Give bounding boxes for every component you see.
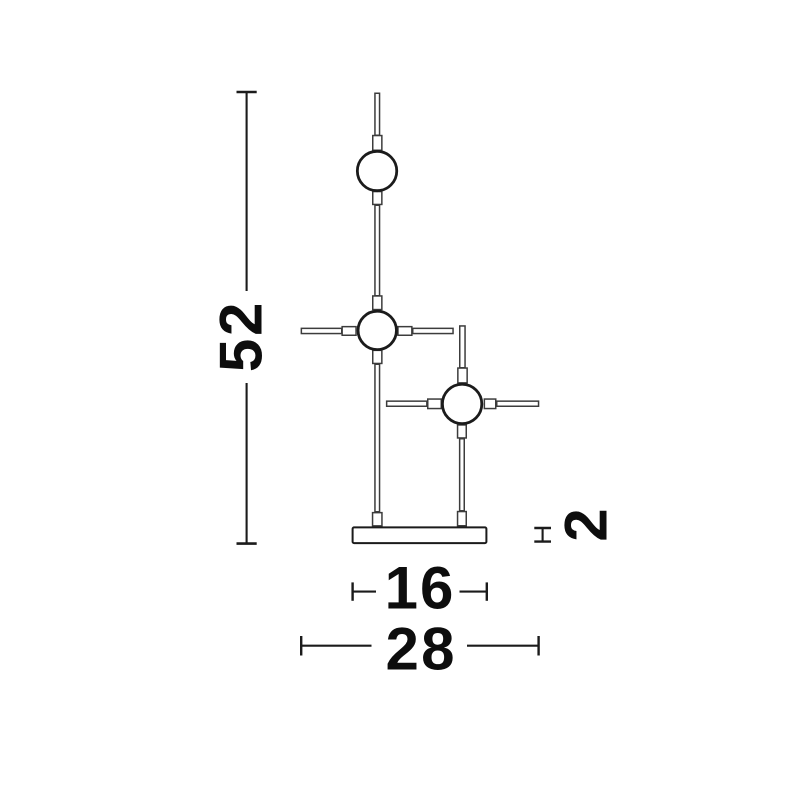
lower sphere right ferrule xyxy=(484,399,495,409)
svg-text:16: 16 xyxy=(385,555,454,622)
dimension 16 left line xyxy=(353,591,376,593)
rod between top and middle sphere xyxy=(375,205,380,296)
ferrule below middle sphere xyxy=(373,350,382,363)
dimension 28 left tick xyxy=(300,636,302,656)
base plate xyxy=(353,527,487,543)
dimension 2 vertical line xyxy=(542,528,544,542)
dimension 52 bottom tick xyxy=(237,542,257,545)
dimension 28 left line xyxy=(301,645,371,647)
lower sphere xyxy=(442,384,481,423)
dimension 52 top tick xyxy=(237,91,257,94)
middle sphere right ferrule xyxy=(398,327,412,336)
dimension 52 vertical line lower segment xyxy=(246,383,248,544)
lower sphere top rod xyxy=(460,326,465,368)
base ferrule of main column xyxy=(373,513,382,526)
middle sphere left ferrule xyxy=(342,327,356,336)
dimension 52 vertical line upper segment xyxy=(246,92,248,291)
ferrule above lower sphere xyxy=(458,368,467,383)
lower rod to base xyxy=(460,439,465,511)
ferrule below lower sphere xyxy=(458,425,467,438)
dimension 28 right line xyxy=(467,645,539,647)
top rod xyxy=(375,93,380,135)
lower sphere left ferrule xyxy=(428,399,442,409)
middle sphere right arm tube xyxy=(413,328,453,333)
rod middle sphere to base xyxy=(375,364,380,512)
base ferrule of lower column xyxy=(458,512,467,526)
dimension 2 bottom tick xyxy=(534,540,551,542)
ferrule above top sphere xyxy=(373,136,382,151)
lower sphere left arm tube xyxy=(387,401,427,406)
ferrule below top sphere xyxy=(373,192,382,205)
dimension 16 left tick xyxy=(351,582,353,600)
dimension 28 right tick xyxy=(537,636,539,656)
ferrule above middle sphere xyxy=(373,296,382,310)
top sphere xyxy=(357,151,396,190)
svg-text:2: 2 xyxy=(553,508,620,541)
dimension 2 top tick xyxy=(534,527,551,529)
middle sphere left arm tube xyxy=(301,328,341,333)
lower sphere right arm tube xyxy=(497,401,539,406)
dimension 16 right line xyxy=(460,591,487,593)
dimension 16 right tick xyxy=(486,582,488,600)
middle sphere xyxy=(358,311,396,349)
